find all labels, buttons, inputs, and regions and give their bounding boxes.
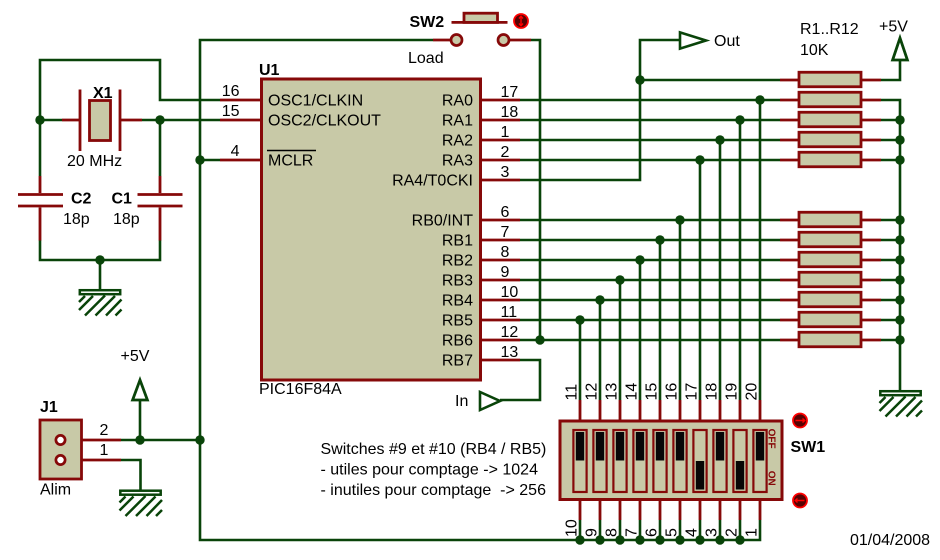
node bus row 320 [895,315,904,324]
power +5V arrow at J1 [133,380,148,400]
svg-text:6: 6 [644,528,661,537]
svg-text:J1: J1 [40,399,58,416]
wire RA4 row to Out buffer and R1 [520,40,680,180]
svg-text:Out: Out [714,33,740,50]
wire R8 right to bus [881,259,900,262]
resistor R1 [780,72,881,87]
svg-text:4: 4 [231,143,240,160]
svg-text:11: 11 [501,304,518,321]
svg-text:1: 1 [100,442,109,459]
wire RA0 row [520,99,780,102]
wire J1 pin 1 to ground [121,460,141,490]
wire SW1 column 16 to RB0 [679,220,682,400]
svg-text:Alim: Alim [40,482,71,499]
svg-text:20 MHz: 20 MHz [67,153,122,170]
wire SW2 right terminal to RB6 column [531,40,540,340]
pin 7 stub RB1 [480,239,520,242]
annotation switches text [321,441,547,499]
SW1 bottom pin 6 stub [659,499,662,520]
pin 13 stub RB7 [480,359,520,362]
svg-text:C2: C2 [71,191,92,208]
svg-text:9: 9 [501,264,510,281]
wire SW1 bottom pin 7 [639,520,642,540]
svg-text:Switches #9 et #10 (RB4 / RB5): Switches #9 et #10 (RB4 / RB5) [321,441,547,458]
svg-text:RA4/T0CKI: RA4/T0CKI [392,173,473,190]
svg-text:2: 2 [724,528,741,537]
wire RA2 row [520,139,780,142]
svg-text:18p: 18p [63,211,90,228]
pin 16 stub OSC1 [220,99,261,102]
crystal X1 right lead [120,119,142,122]
node bottom bus col 680 [675,535,684,544]
svg-text:2: 2 [501,144,510,161]
svg-text:18p: 18p [113,211,140,228]
wire SW1 column 14 to RB2 [639,260,642,400]
wire RB6 row [520,339,780,342]
power +5V arrow right [893,38,908,60]
wire SW1 bottom pin 9 [599,520,602,540]
pin 11 stub RB5 [480,319,520,322]
svg-text:13: 13 [501,344,519,361]
svg-text:13: 13 [604,383,621,401]
svg-text:RA3: RA3 [442,153,473,170]
wire RA3 row [520,159,780,162]
wire SW1 column 11 to RB5 [579,320,582,400]
wire R10 right to bus [881,299,900,302]
node RA1 column 19 [735,115,744,124]
C1 top lead [159,176,162,193]
SW1 top pin 18 stub [719,400,722,422]
node bus row 120 [895,115,904,124]
SW1 switch 9 slot (col 600, OFF) [593,430,606,492]
wire SW1 bottom pin 2 [739,520,742,540]
SW1 switch 1 slot (col 760, OFF) [753,430,766,492]
node RA0 column 20 [755,95,764,104]
wire RB5 row [520,319,780,322]
svg-text:RB5: RB5 [442,313,473,330]
J1 pin 1 stub [66,459,121,462]
C1 bottom lead [159,208,162,241]
node bottom bus col 620 [615,535,624,544]
pin 4 stub MCLR [220,159,261,162]
svg-text:- inutiles pour comptage -> 2: - inutiles pour comptage -> 256 [321,482,547,499]
SW1 bottom pin 4 stub [699,499,702,520]
node RA2 column 18 [715,135,724,144]
svg-text:RA2: RA2 [442,133,473,150]
node bus row 240 [895,235,904,244]
node bus row 160 [895,155,904,164]
node bus row 280 [895,275,904,284]
SW2 left terminal stub [433,39,450,42]
wire R12 right to bus [881,339,900,342]
svg-text:15: 15 [222,103,240,120]
wire SW1 bottom pin 10 [579,520,582,540]
ground below caps [79,290,122,315]
J1 pin 2 stub [66,439,121,442]
pin 18 stub RA1 [480,119,520,122]
node SW2 to RB6 [535,335,544,344]
node RB2 column 14 [635,255,644,264]
buffer Out [680,32,706,48]
wire R5 right to bus [881,159,900,162]
wire RA1 row [520,119,780,122]
SW1 bottom pin 2 stub [739,499,742,520]
SW1 bottom pin 9 stub [599,499,602,520]
node bottom bus col 600 [595,535,604,544]
SW1 bottom pin 7 stub [639,499,642,520]
SW1 top pin 19 stub [739,400,742,422]
pin 12 stub RB6 [480,339,520,342]
wire +5V arrow stem at J1 [139,400,142,440]
node bus row 220 [895,215,904,224]
svg-text:12: 12 [501,324,519,341]
resistor R7 [780,232,881,247]
svg-text:01/04/2008: 01/04/2008 [850,532,930,549]
node crystal left [35,115,44,124]
svg-text:19: 19 [724,383,741,401]
svg-text:PIC16F84A: PIC16F84A [259,381,342,398]
wire SW1 column 18 to RA2 [719,140,722,400]
SW1 top pin 11 stub [579,400,582,422]
resistor R6 [780,212,881,227]
node Out/RA4 to R1 [635,75,644,84]
svg-text:In: In [455,393,468,410]
SW1 bottom pin 8 stub [619,499,622,520]
wire R1 row [640,79,780,82]
wire SW1 bottom pin 8 [619,520,622,540]
resistor R3 [780,112,881,127]
pin 1 stub RA2 [480,139,520,142]
node crystal right / OSC2 [155,115,164,124]
svg-text:3: 3 [704,528,721,537]
resistor R4 [780,132,881,147]
svg-text:10: 10 [564,519,581,537]
pin 10 stub RB4 [480,299,520,302]
node RB3 column 13 [615,275,624,284]
pin name MCLR with overline [267,151,316,170]
resistor R8 [780,252,881,267]
svg-text:17: 17 [684,383,701,401]
SW1 bottom pin 5 stub [679,499,682,520]
pin 8 stub RB2 [480,259,520,262]
svg-text:RA1: RA1 [442,113,473,130]
wire RB1 row [520,239,780,242]
node cap ground [95,255,104,264]
node bottom bus col 640 [635,535,644,544]
svg-text:+5V: +5V [879,19,908,36]
wire R6 right to bus [881,219,900,222]
svg-text:5: 5 [664,528,681,537]
wire ground stem below caps [99,260,102,290]
DIP switch SW1 body [560,421,782,500]
node RB4 column 12 [595,295,604,304]
svg-text:MCLR: MCLR [268,153,313,170]
SW1 top pin 17 stub [699,400,702,422]
connector J1 [40,420,82,479]
wire capacitor ground bus [40,240,160,260]
svg-text:C1: C1 [112,191,133,208]
svg-text:RB4: RB4 [442,293,473,310]
pin 17 stub RA0 [480,99,520,102]
SW1 switch 7 slot (col 640, OFF) [633,430,646,492]
wire R1 right to +5V [881,60,900,80]
svg-text:11: 11 [564,384,581,401]
pin 3 stub RA4 [480,179,520,182]
svg-text:R1..R12: R1..R12 [800,21,859,38]
node bus row 340 [895,335,904,344]
svg-text:+5V: +5V [121,348,150,365]
svg-text:16: 16 [664,383,681,401]
node J1 on +5V rail [195,435,204,444]
capacitor C2 [18,195,63,207]
wire RB2 row [520,259,780,262]
SW1 top pin 16 stub [679,400,682,422]
pin 9 stub RB3 [480,279,520,282]
pin 6 stub RB0 [480,219,520,222]
C2 bottom lead [39,208,42,241]
SW1 top pin 12 stub [599,400,602,422]
node bus row 260 [895,255,904,264]
node RB5 column 11 [575,315,584,324]
wire SW1 column 19 to RA1 [739,120,742,400]
wire crystal left lead to node [40,119,62,122]
wire RB0 row [520,219,780,222]
svg-text:RB1: RB1 [442,233,473,250]
svg-text:1: 1 [501,124,510,141]
svg-text:20: 20 [744,383,761,401]
wire J1 pin 2 to +5V rail [121,439,200,442]
resistor R11 [780,312,881,327]
SW1 switch 2 slot (col 740, ON) [733,430,746,492]
svg-text:12: 12 [584,383,601,401]
wire SW1 bottom pin 6 [659,520,662,540]
node RB0 column 16 [675,215,684,224]
svg-text:SW2: SW2 [410,14,445,31]
node bottom bus col 580 [575,535,584,544]
svg-text:RB3: RB3 [442,273,473,290]
svg-text:3: 3 [501,164,510,181]
wire SW1 column 17 to RA3 [699,160,702,400]
svg-text:OSC1/CLKIN: OSC1/CLKIN [268,93,363,110]
resistor R5 [780,152,881,167]
svg-text:RB6: RB6 [442,333,473,350]
wire SW1 bottom pin 4 [699,520,702,540]
buffer In [480,392,500,410]
push button SW2 [451,13,528,45]
wire C2 branch down [39,120,42,176]
svg-text:8: 8 [604,528,621,537]
resistor R10 [780,292,881,307]
capacitor C1 [138,195,183,207]
wire RB3 row [520,279,780,282]
SW1 actuator button down [793,494,807,508]
wire R9 right to bus [881,279,900,282]
node bottom bus col 660 [655,535,664,544]
ground right side [880,391,923,416]
crystal X1 [80,90,120,152]
svg-text:15: 15 [644,383,661,401]
svg-text:10: 10 [501,284,519,301]
resistor R9 [780,272,881,287]
node RA3 column 17 [695,155,704,164]
SW2 right terminal stub [510,39,531,42]
node RB1 column 15 [655,235,664,244]
svg-text:17: 17 [501,84,519,101]
SW1 actuator button up [793,414,807,428]
wire R11 right to bus [881,319,900,322]
svg-text:4: 4 [684,528,701,537]
wire C1 branch down [159,120,162,176]
svg-text:Load: Load [408,50,444,67]
wire RB4 row [520,299,780,302]
C2 top lead [39,176,42,193]
SW1 switch 6 slot (col 660, OFF) [653,430,666,492]
svg-text:8: 8 [501,244,510,261]
svg-text:X1: X1 [93,85,113,102]
wire crystal loop to OSC1 pin 16 [40,60,220,120]
svg-text:ON: ON [766,471,777,486]
node bus row 300 [895,295,904,304]
wire SW1 column 20 to RA0 [759,100,762,400]
svg-text:OFF: OFF [766,429,777,449]
svg-text:RB7: RB7 [442,353,473,370]
node +5V arrow at J1 [135,435,144,444]
wire SW1 column 15 to RB1 [659,240,662,400]
svg-text:6: 6 [501,204,510,221]
pin 2 stub RA3 [480,159,520,162]
svg-text:U1: U1 [259,62,280,79]
svg-text:16: 16 [222,83,240,100]
svg-text:RA0: RA0 [442,93,473,110]
svg-text:18: 18 [501,104,519,121]
pin 15 stub OSC2 [220,119,261,122]
node bottom bus col 700 [695,535,704,544]
SW1 bottom pin 3 stub [719,499,722,520]
SW1 switch 4 slot (col 700, ON) [693,430,706,492]
wire +5V rail: top to SW2, left border, bottom bus [200,40,760,540]
svg-text:RB2: RB2 [442,253,473,270]
svg-text:SW1: SW1 [791,439,826,456]
SW1 bottom pin 1 stub [759,499,762,520]
SW1 top pin 14 stub [639,400,642,422]
wire SW1 column 13 to RB3 [619,280,622,400]
wire RB7 to In buffer [500,360,540,400]
ground below J1 [120,491,163,516]
resistor R2 [780,92,881,107]
svg-text:7: 7 [501,224,510,241]
SW1 top pin 20 stub [759,400,762,422]
node bottom bus col 720 [715,535,724,544]
svg-text:14: 14 [624,383,641,401]
SW1 top pin 15 stub [659,400,662,422]
SW1 bottom pin 10 stub [579,499,582,520]
crystal X1 left lead [62,119,80,122]
wire R4 right to bus [881,139,900,142]
wire R7 right to bus [881,239,900,242]
SW1 switch 5 slot (col 680, OFF) [673,430,686,492]
wire crystal right lead to OSC2 pin 15 [142,119,220,122]
svg-text:1: 1 [744,528,761,537]
SW1 switch 10 slot (col 580, OFF) [573,430,586,492]
SW1 switch 8 slot (col 620, OFF) [613,430,626,492]
SW1 top pin 13 stub [619,400,622,422]
node bottom bus col 740 [735,535,744,544]
svg-text:7: 7 [624,528,641,537]
wire SW1 bottom pin 5 [679,520,682,540]
wire MCLR to +5V rail [200,159,220,162]
svg-text:OSC2/CLKOUT: OSC2/CLKOUT [268,113,381,130]
svg-text:10K: 10K [800,42,829,59]
svg-text:2: 2 [100,422,109,439]
SW1 switch 3 slot (col 720, OFF) [713,430,726,492]
svg-text:- utiles pour comptage -> 1024: - utiles pour comptage -> 1024 [321,462,539,479]
wire SW1 column 12 to RB4 [599,300,602,400]
node bus row 140 [895,135,904,144]
svg-text:9: 9 [584,528,601,537]
wire SW1 bottom pin 3 [719,520,722,540]
IC U1 PIC16F84A body [262,79,481,380]
svg-text:18: 18 [704,383,721,401]
svg-text:RB0/INT: RB0/INT [412,213,474,230]
node MCLR on +5V rail [195,155,204,164]
resistor R12 [780,332,881,347]
wire R3 right to bus [881,119,900,122]
wire ground bus right side [881,100,900,390]
